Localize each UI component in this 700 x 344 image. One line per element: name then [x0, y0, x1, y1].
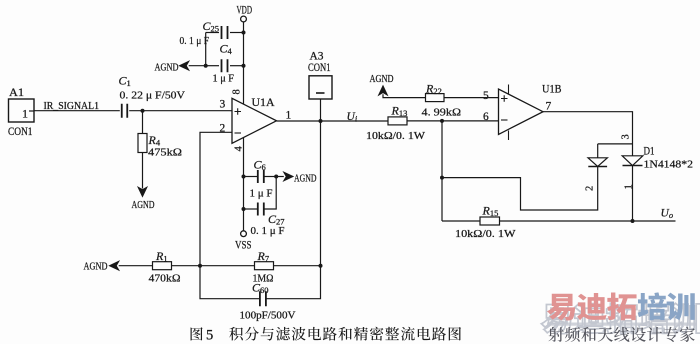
resistor R1 body	[153, 262, 172, 270]
svg-text:CON1: CON1	[308, 62, 331, 74]
wire U1A out to R13	[277, 120, 389, 122]
wire R13 to U1B pin6	[407, 120, 499, 122]
capacitor C60	[260, 291, 266, 306]
watermark ghost underline	[547, 323, 696, 326]
wire R1 to R7	[172, 265, 255, 267]
U1B plus input mark	[501, 95, 508, 102]
connector A1 CON1 box	[9, 99, 35, 122]
pin mark inside A3	[316, 92, 325, 94]
svg-text:1N4148*2: 1N4148*2	[644, 159, 694, 171]
svg-text:1: 1	[22, 107, 28, 121]
junction node input/R4	[141, 109, 145, 113]
wire junction to R4	[142, 111, 144, 134]
caption: figure 5 title char 图	[191, 327, 203, 340]
diode D1a cathode bar	[588, 166, 607, 168]
svg-text:1 μ F: 1 μ F	[213, 73, 235, 85]
junction pin2 rail/R1/R7/C60	[198, 264, 202, 268]
svg-text:Uo: Uo	[661, 208, 674, 221]
diode D1b cathode bar	[623, 165, 643, 167]
svg-text:1 μ F: 1 μ F	[250, 188, 273, 200]
wire node to R15	[442, 220, 480, 222]
wire C1 to U1A pin3	[129, 110, 232, 112]
wire AGND arrow to R1	[119, 265, 153, 267]
wire to AGND arrow (C6)	[276, 176, 284, 178]
wire diode anode bridge	[598, 143, 633, 145]
junction VSS rail/C27	[242, 207, 246, 211]
wire to C4 left	[206, 65, 219, 67]
svg-text:VDD: VDD	[237, 5, 253, 17]
svg-text:5: 5	[483, 90, 489, 102]
op-amp U1B triangle	[499, 89, 544, 134]
svg-text:3: 3	[621, 134, 632, 139]
svg-text:6: 6	[483, 111, 489, 123]
AGND arrow right (C6)	[284, 172, 293, 181]
svg-text:A1: A1	[9, 87, 24, 99]
wire R4 to AGND arrow	[142, 153, 144, 189]
junction VDD/C25	[242, 31, 246, 35]
pin 1 stub inside A1	[29, 110, 34, 112]
svg-text:10kΩ/0. 1W: 10kΩ/0. 1W	[366, 130, 426, 142]
svg-text:VSS: VSS	[235, 240, 252, 252]
junction VDD/C4	[242, 64, 246, 68]
resistor R4 body	[138, 134, 147, 153]
svg-text:U1A: U1A	[252, 97, 276, 109]
wire IR_SIGNAL1 from A1 to C1	[34, 110, 120, 112]
svg-text:0. 22 μ F/50V: 0. 22 μ F/50V	[120, 90, 186, 102]
AGND arrow left (C4)	[180, 61, 189, 70]
svg-text:3: 3	[220, 99, 226, 111]
svg-text:CON1: CON1	[8, 126, 33, 138]
svg-text:IR_SIGNAL1: IR_SIGNAL1	[44, 100, 100, 112]
wire U1A pin2 left and down to R1/R7 node	[200, 132, 232, 265]
svg-text:100pF/500V: 100pF/500V	[240, 310, 296, 322]
caption text	[229, 327, 461, 341]
wire U1A pin4 down to VSS	[243, 137, 245, 230]
junction R13/fullwave branch	[440, 119, 444, 123]
U1B minus input mark	[501, 119, 508, 121]
AGND arrow left (R1)	[110, 261, 119, 270]
AGND arrow down (R4)	[138, 187, 147, 196]
svg-text:0. 1 μ F: 0. 1 μ F	[251, 225, 285, 237]
wire VDD down to U1A pin8	[243, 22, 245, 104]
svg-text:AGND: AGND	[84, 261, 108, 273]
wire feedback down to R7	[320, 121, 322, 266]
wire U1B pin7 right and down to D1b anode	[543, 112, 633, 156]
wire right leg of C60 loop	[266, 266, 320, 299]
AGND arrow up (R22)	[379, 86, 388, 95]
svg-text:8: 8	[232, 89, 243, 94]
wire to C25 left	[206, 32, 219, 34]
capacitor C25	[222, 26, 228, 39]
wire C27 right up to C6 right	[264, 177, 276, 210]
wire R7 to feedback rail	[274, 265, 321, 267]
svg-text:U1B: U1B	[542, 84, 562, 96]
watermark subtitle	[549, 327, 695, 342]
capacitor C27	[258, 203, 264, 216]
wire C4 right to VDD rail	[230, 65, 244, 67]
wire D1a cathode to inverting node	[442, 167, 598, 211]
wire A3 down to output net	[320, 99, 322, 121]
U1B V+ pin tick	[508, 85, 510, 95]
svg-text:4. 99kΩ: 4. 99kΩ	[422, 107, 462, 119]
U1A minus input mark	[235, 132, 242, 134]
svg-text:AGND: AGND	[155, 62, 179, 74]
junction feedback rail/R7/C60	[319, 264, 323, 268]
wire down-left leg of C60 loop	[200, 266, 259, 299]
wire C6 right	[264, 176, 276, 178]
diode D1b triangle	[622, 156, 643, 166]
connector A3 CON1 box	[309, 76, 332, 99]
svg-text:2: 2	[585, 186, 596, 191]
svg-text:475kΩ: 475kΩ	[148, 147, 182, 159]
resistor R7 body	[255, 262, 274, 270]
junction C6/C27 right rail	[274, 175, 278, 179]
U1A plus input mark	[235, 108, 242, 115]
op-amp U1A triangle	[232, 98, 277, 143]
svg-text:1: 1	[286, 110, 292, 122]
svg-text:Ui: Ui	[347, 111, 358, 124]
wire C25 right to VDD rail	[230, 32, 244, 34]
svg-text:D1: D1	[644, 146, 655, 158]
watermark big text blue 培训	[638, 292, 695, 320]
wire D1b cathode down to output	[632, 166, 634, 222]
resistor R13 body	[388, 117, 407, 125]
junction C25/C4 left rail	[204, 64, 208, 68]
capacitor C1	[122, 104, 128, 118]
junction output/A3/feedback	[319, 119, 323, 123]
wire R22 to U1B pin5	[444, 97, 499, 99]
watermark ghost text	[541, 303, 700, 334]
capacitor C6	[258, 170, 264, 183]
wire C25 left rail down	[205, 33, 207, 66]
svg-text:5: 5	[206, 327, 213, 343]
resistor R22 body	[426, 94, 445, 102]
wire AGND to C4	[189, 65, 206, 67]
VDD terminal circle	[241, 16, 247, 22]
svg-text:470kΩ: 470kΩ	[149, 273, 181, 285]
svg-text:0. 1 μ F: 0. 1 μ F	[180, 35, 210, 47]
resistor R15 body	[480, 217, 500, 225]
svg-text:AGND: AGND	[294, 173, 317, 185]
wire bridge down to D1a anode	[597, 144, 599, 158]
wire to C6 left	[244, 176, 258, 178]
junction VSS rail/C6	[242, 175, 246, 179]
svg-text:AGND: AGND	[132, 199, 155, 211]
svg-text:AGND: AGND	[370, 73, 394, 85]
diode D1a triangle	[588, 158, 607, 167]
svg-text:10kΩ/0. 1W: 10kΩ/0. 1W	[455, 228, 516, 240]
svg-text:7: 7	[546, 101, 552, 113]
wire R15 to output Uo	[500, 220, 676, 222]
watermark big text pink 易迪拓	[547, 293, 637, 321]
VSS terminal circle	[241, 231, 247, 237]
wire to C27 left	[244, 208, 258, 210]
wire AGND arrow to R22	[383, 94, 426, 97]
capacitor C4	[222, 59, 228, 72]
junction feedback/diode return	[440, 176, 444, 180]
wire inverting node down to R15	[441, 121, 443, 221]
U1B V- pin tick	[508, 131, 510, 141]
junction D1b/output	[631, 219, 635, 223]
svg-text:4: 4	[234, 146, 245, 152]
svg-text:A3: A3	[310, 51, 324, 63]
